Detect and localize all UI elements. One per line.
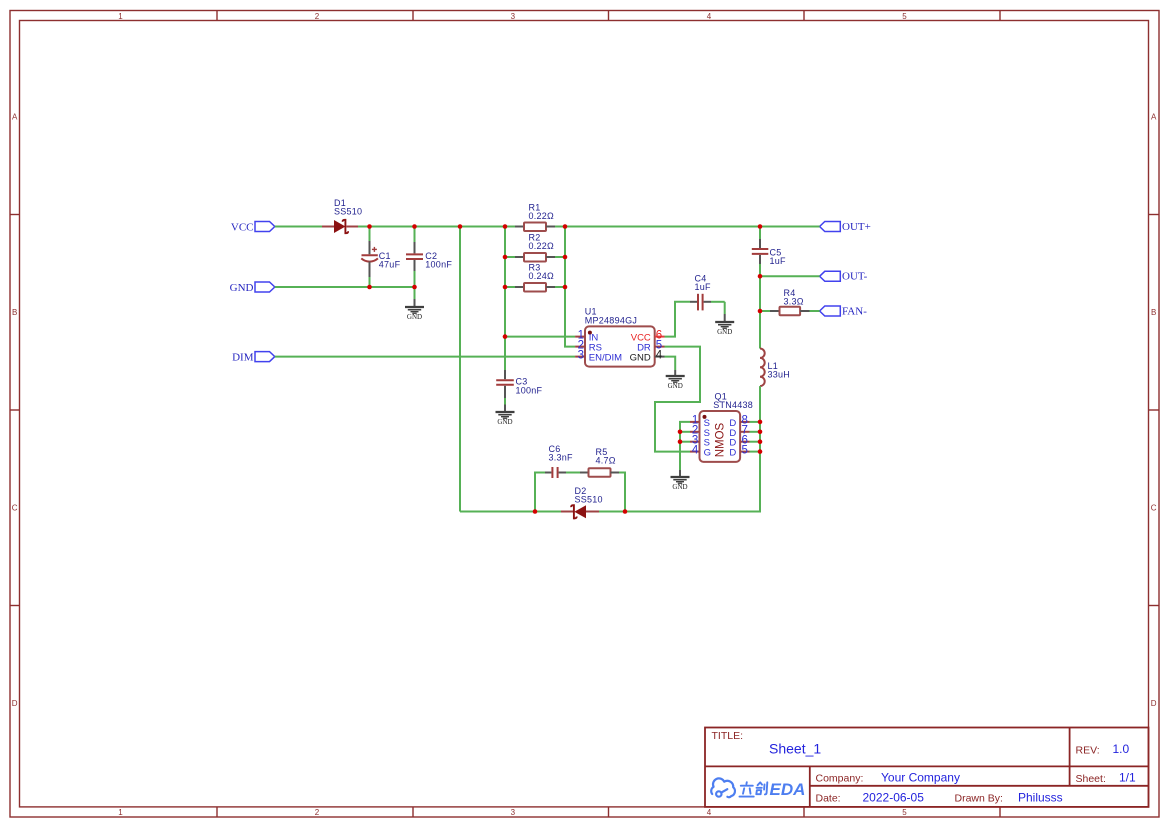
junction R2 left [503,255,508,260]
svg-text:B: B [1151,308,1156,317]
capacitor C4 1uF [690,273,725,310]
junction Q1 S3 [678,439,683,444]
svg-text:GND: GND [407,313,422,321]
svg-text:4: 4 [707,808,712,817]
svg-text:GND: GND [668,382,683,390]
wire top rail R1 to OUT+ [555,226,820,228]
junction Q1 D6 [758,439,763,444]
svg-text:100nF: 100nF [516,386,543,396]
svg-text:2: 2 [315,808,320,817]
svg-text:4: 4 [656,349,663,361]
svg-text:OUT-: OUT- [842,271,868,283]
svg-text:100nF: 100nF [425,259,452,269]
svg-text:3: 3 [511,808,516,817]
port GND [230,282,275,294]
svg-text:DIM: DIM [232,352,254,364]
resistor R1 0.22 ohm [505,203,555,232]
junction top rail C2 [412,224,417,229]
wire snubber right vertical [619,473,625,512]
wire Q1 source pins to ground [680,422,690,470]
svg-text:C: C [1151,504,1157,513]
svg-text:GND: GND [672,483,687,491]
svg-text:D: D [12,699,18,708]
junction top rail C1 [367,224,372,229]
svg-text:3.3nF: 3.3nF [549,452,574,462]
port OUT- [820,271,868,283]
wire snubber left vertical [535,473,545,512]
svg-text:5: 5 [902,808,907,817]
junction Q1 D5 [758,449,763,454]
wire Q1 source stem [679,470,681,477]
svg-text:REV:: REV: [1076,745,1100,757]
wire bottom left [460,511,535,513]
svg-text:3.3Ω: 3.3Ω [784,296,804,306]
svg-text:1uF: 1uF [770,256,787,266]
svg-text:1: 1 [118,808,123,817]
svg-text:2: 2 [315,12,320,21]
svg-text:Philusss: Philusss [1018,790,1063,804]
junction top rail vertical [458,224,463,229]
svg-text:MP24894GJ: MP24894GJ [585,316,637,326]
wire L1 to Q1 drain rail [759,386,761,452]
svg-text:3: 3 [578,349,584,361]
svg-text:TITLE:: TITLE: [712,730,744,742]
svg-text:G: G [704,448,711,459]
junction top rail C5 [758,224,763,229]
svg-text:4.7Ω: 4.7Ω [596,455,616,465]
svg-text:B: B [12,308,17,317]
svg-text:C: C [12,504,18,513]
capacitor C6 3.3nF [545,444,580,478]
svg-text:NMOS: NMOS [715,422,727,457]
junction snubber left [533,509,538,514]
logo [711,778,767,797]
wire U1 pin6 to C4 [665,302,691,337]
resistor R4 3.3 ohm [760,288,820,316]
svg-text:Company:: Company: [816,773,864,785]
wire IN to U1 pin1 [505,336,575,338]
op-amp U1 MP24894GJ [575,307,664,367]
wire C2 to ground [414,287,416,307]
wire D2 anode [599,511,625,513]
junction Q1 S2 [678,430,683,435]
junction GND rail C2 [412,285,417,290]
svg-text:33uH: 33uH [768,369,791,379]
svg-text:STN4438: STN4438 [713,400,753,410]
ground under C4 [715,322,734,336]
svg-text:Date:: Date: [816,793,841,805]
svg-text:1: 1 [118,12,123,21]
junction Q1 D8 [758,420,763,425]
capacitor C3 100nF [496,370,542,412]
wire right rail [565,227,575,347]
ground under C2 [405,307,424,321]
wire U1 pin4 to ground [665,357,676,376]
junction GND rail C1 [367,285,372,290]
svg-text:1uF: 1uF [695,282,712,292]
ground under Q1 [671,477,690,491]
svg-text:Sheet:: Sheet: [1076,773,1106,785]
svg-text:4: 4 [692,444,699,456]
svg-text:0.24Ω: 0.24Ω [529,271,555,281]
junction OUT- [758,274,763,279]
wire left rail [504,227,506,371]
svg-text:GND: GND [497,418,512,426]
svg-text:Sheet_1: Sheet_1 [769,741,821,757]
wire VCC to D1 [275,226,322,228]
port OUT+ [820,221,871,233]
wire top rail D1 to R1 [358,226,515,228]
diode D2 SS510 [561,486,603,518]
junction snubber right [623,509,628,514]
wire drain rail to bottom [625,452,760,512]
svg-text:D: D [729,448,736,459]
capacitor C2 100nF [406,227,452,288]
svg-text:GND: GND [717,328,732,336]
junction Q1 D7 [758,430,763,435]
port VCC [231,221,275,233]
svg-text:5: 5 [742,444,748,456]
svg-text:5: 5 [902,12,907,21]
ground under U1 pin4 [666,376,685,390]
wire R4 node to L1 [759,311,761,349]
wire U1 pin5 DR to Q1 gate [655,347,700,452]
wire DIM to U1 pin3 [275,356,575,358]
junction R4 [758,309,763,314]
junction R3 left [503,285,508,290]
wire long vertical to snubber row [459,227,461,512]
svg-text:0.22Ω: 0.22Ω [529,211,555,221]
svg-text:1.0: 1.0 [1113,742,1130,756]
diode D1 SS510 [322,198,362,233]
svg-text:GND: GND [230,282,254,294]
wire GND rail [275,286,415,288]
svg-text:GND: GND [630,352,651,363]
wire OUT- [760,275,820,277]
resistor R3 0.24 ohm [505,263,565,292]
resistor R5 4.7 ohm [580,447,619,477]
svg-text:EN/DIM: EN/DIM [589,352,622,363]
junction R3 right [563,285,568,290]
junction top rail R1 right [563,224,568,229]
svg-text:Drawn By:: Drawn By: [955,792,1003,804]
title block [705,728,1149,807]
svg-text:A: A [1151,113,1157,122]
junction top rail R1 left [503,224,508,229]
svg-text:VCC: VCC [231,221,254,233]
capacitor C1 47uF polarized [361,227,400,288]
wire vertical OUT- to R4 [759,276,761,311]
svg-text:47uF: 47uF [379,259,401,269]
wire D2 cathode [535,511,561,513]
svg-text:D: D [1151,699,1157,708]
junction R2 right [563,255,568,260]
port FAN- [820,305,868,317]
svg-text:SS510: SS510 [334,206,362,216]
transistor Q1 STN4438 [690,392,753,462]
port DIM [232,352,275,364]
svg-text:3: 3 [511,12,516,21]
svg-text:FAN-: FAN- [842,305,867,317]
svg-text:1/1: 1/1 [1119,771,1136,785]
svg-text:4: 4 [707,12,712,21]
svg-text:SS510: SS510 [575,495,603,505]
capacitor C5 1uF [752,227,786,277]
ground under C3 [496,412,515,426]
resistor R2 0.22 ohm [505,233,565,262]
svg-text:Your Company: Your Company [881,771,960,785]
svg-text:0.22Ω: 0.22Ω [529,241,555,251]
svg-text:OUT+: OUT+ [842,221,871,233]
inductor L1 33uH [760,349,790,387]
svg-text:A: A [12,113,18,122]
junction IN node [503,334,508,339]
svg-text:EDA: EDA [770,780,806,799]
wire Q1 drain stubs to rail [750,422,761,452]
wire C4 to ground [724,302,726,322]
svg-text:2022-06-05: 2022-06-05 [863,791,925,805]
